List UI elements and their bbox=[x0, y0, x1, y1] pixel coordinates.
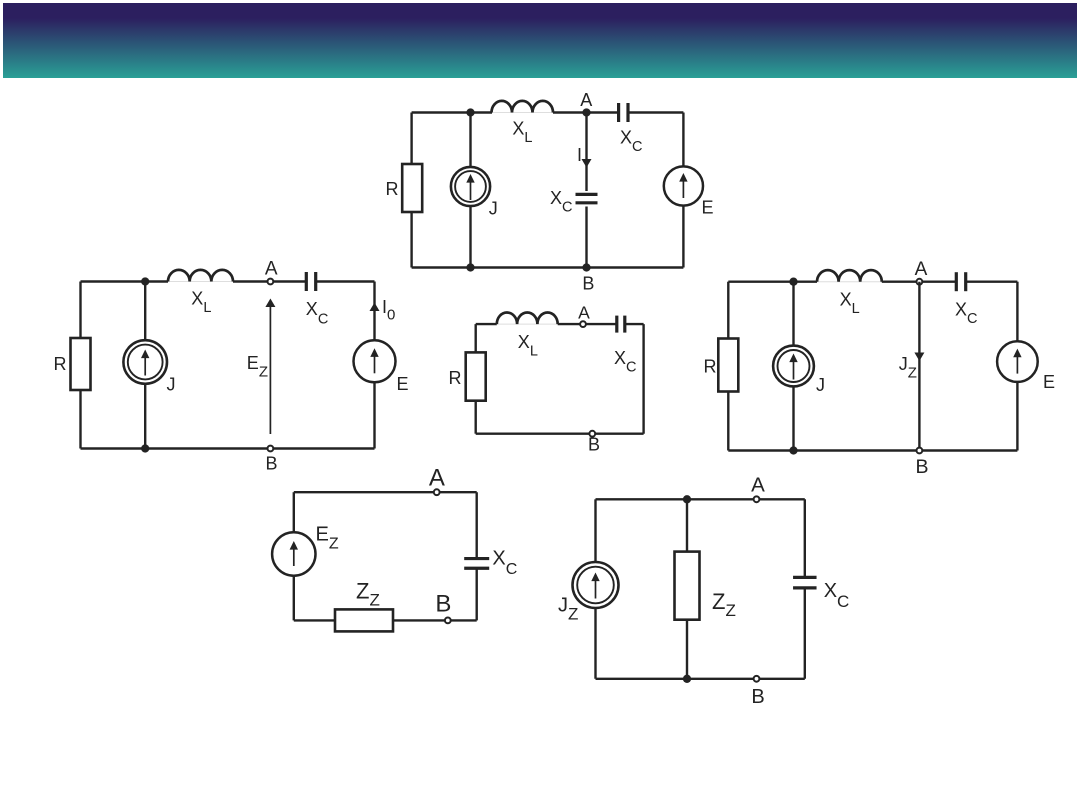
wire: circuit-5 left upper bbox=[293, 492, 295, 532]
voltage arrow E_Z (circuit 2) bbox=[269, 306, 271, 434]
inductor X_L (circuit 2) bbox=[168, 270, 233, 282]
junction: circuit-6 bottom bbox=[683, 675, 691, 683]
wire: circuit-6 Z branch lower bbox=[686, 620, 688, 679]
current source J (circuit 2) bbox=[123, 340, 167, 384]
svg-text:R: R bbox=[704, 357, 717, 377]
junction: circuit-2 bottom bbox=[141, 444, 149, 452]
wire: circuit-6 left lower bbox=[594, 608, 596, 679]
wire: circuit-1 right lower bbox=[682, 206, 684, 268]
wire: circuit-4 left lower bbox=[727, 392, 729, 451]
svg-text:B: B bbox=[915, 456, 928, 478]
voltage source E (circuit 4) bbox=[997, 341, 1038, 382]
current arrow I_0 (circuit 2) bbox=[370, 303, 380, 312]
ghost line under inductor (circuit 4) bbox=[817, 281, 882, 283]
current arrow J_Z (circuit 4) bbox=[914, 353, 924, 362]
capacitor X_C middle (circuit 1) bbox=[576, 193, 598, 196]
node A (circuit 5) bbox=[434, 489, 440, 495]
ghost line under inductor (circuit 3) bbox=[497, 323, 558, 325]
wire: circuit-4 right upper bbox=[1016, 282, 1018, 342]
wire: circuit-6 left upper bbox=[594, 499, 596, 562]
wire: circuit-1 middle branch upper bbox=[585, 113, 587, 192]
header gradient band bbox=[3, 3, 1077, 78]
node A (circuit 6) bbox=[754, 496, 760, 502]
wire: circuit-3 bottom rail bbox=[476, 433, 644, 435]
capacitor X_C (circuit 6) bbox=[793, 576, 817, 579]
svg-text:JZ: JZ bbox=[899, 354, 917, 382]
voltage source E_Z (circuit 5) bbox=[272, 532, 315, 575]
svg-text:XC: XC bbox=[492, 548, 517, 579]
svg-text:B: B bbox=[265, 454, 277, 474]
wire: circuit-1 middle branch lower bbox=[585, 207, 587, 268]
capacitor X_C (circuit 2) bbox=[305, 272, 308, 291]
wire: circuit-4 top rail right bbox=[966, 281, 1018, 283]
wire: circuit-1 bottom rail bbox=[412, 266, 684, 268]
wire: circuit-3 left lower bbox=[475, 401, 477, 434]
wire: circuit-4 J branch upper bbox=[792, 282, 794, 346]
capacitor X_C top (circuit 1) bbox=[617, 103, 620, 122]
svg-text:I: I bbox=[577, 145, 582, 165]
wire: circuit-6 bottom rail bbox=[596, 678, 805, 680]
wire: circuit-1 J branch lower bbox=[469, 206, 471, 268]
resistor R (circuit 2) bbox=[71, 338, 91, 390]
junction: circuit-1 top bbox=[466, 108, 474, 116]
wire: circuit-2 top rail right bbox=[316, 280, 375, 282]
svg-text:XC: XC bbox=[306, 299, 329, 328]
wire: circuit-4 left upper bbox=[727, 282, 729, 339]
junction: circuit-6 top bbox=[683, 495, 691, 503]
junction: circuit-1 bottom bbox=[466, 263, 474, 271]
ghost line under inductor (circuit 2) bbox=[168, 281, 233, 283]
svg-text:I0: I0 bbox=[382, 297, 395, 324]
svg-text:A: A bbox=[751, 474, 765, 497]
svg-text:EZ: EZ bbox=[247, 353, 268, 381]
svg-text:A: A bbox=[580, 90, 592, 110]
current source J (circuit 1) bbox=[451, 167, 490, 206]
resistor R (circuit 1) bbox=[402, 164, 422, 212]
wire: circuit-2 bottom rail bbox=[81, 447, 375, 449]
svg-text:R: R bbox=[386, 179, 399, 199]
node B (circuit 4) bbox=[917, 448, 923, 454]
inductor X_L (circuit 1) bbox=[492, 101, 554, 113]
wire: circuit-4 right lower bbox=[1016, 382, 1018, 451]
svg-text:XL: XL bbox=[512, 118, 532, 146]
svg-text:B: B bbox=[582, 273, 594, 293]
wire: circuit-5 right lower bbox=[476, 568, 478, 620]
svg-text:XL: XL bbox=[840, 289, 860, 317]
svg-text:ZZ: ZZ bbox=[712, 589, 736, 620]
node A (circuit 1) bbox=[582, 108, 590, 116]
wire: circuit-2 right upper bbox=[373, 282, 375, 341]
node B (circuit 3) bbox=[589, 431, 595, 437]
wire: circuit-4 middle branch J_Z bbox=[918, 282, 920, 451]
svg-text:R: R bbox=[449, 368, 462, 388]
wire: circuit-6 right upper bbox=[804, 499, 806, 577]
svg-text:XC: XC bbox=[620, 128, 643, 156]
wire: circuit-2 left upper bbox=[79, 282, 81, 339]
wire: circuit-1 top rail left bbox=[412, 111, 492, 113]
svg-text:B: B bbox=[435, 590, 451, 617]
wire: circuit-3 left upper bbox=[475, 324, 477, 352]
capacitor X_C (circuit 3) bbox=[615, 316, 618, 333]
wire: circuit-4 bottom rail bbox=[728, 449, 1017, 451]
svg-text:E: E bbox=[1043, 372, 1055, 392]
wire: circuit-1 J branch upper bbox=[469, 113, 471, 168]
inductor X_L (circuit 4) bbox=[817, 270, 882, 282]
resistor R (circuit 3) bbox=[466, 352, 486, 400]
wire: circuit-3 top rail left bbox=[476, 323, 497, 325]
svg-text:J: J bbox=[167, 375, 176, 395]
wire: circuit-5 bottom left segment bbox=[294, 619, 335, 621]
svg-text:A: A bbox=[429, 465, 445, 492]
wire: circuit-2 J branch lower bbox=[144, 383, 146, 449]
node A (circuit 2) bbox=[268, 279, 274, 285]
wire: circuit-5 bottom right segment bbox=[393, 619, 477, 621]
junction: circuit-4 top bbox=[789, 278, 797, 286]
wire: circuit-1 left upper bbox=[410, 113, 412, 165]
svg-text:EZ: EZ bbox=[316, 524, 339, 553]
svg-text:E: E bbox=[397, 374, 409, 394]
wire: circuit-1 top rail middle bbox=[553, 111, 619, 113]
svg-text:R: R bbox=[54, 354, 67, 374]
svg-text:XL: XL bbox=[191, 288, 211, 316]
wire: circuit-6 top rail bbox=[596, 498, 805, 500]
capacitor X_C (circuit 5) bbox=[464, 557, 489, 560]
svg-text:JZ: JZ bbox=[558, 595, 578, 624]
wire: circuit-5 right upper bbox=[476, 492, 478, 558]
wire: circuit-3 top rail right bbox=[625, 323, 644, 325]
wire: circuit-4 J branch lower bbox=[792, 386, 794, 450]
wire: circuit-4 top rail middle bbox=[882, 281, 957, 283]
wire: circuit-2 right lower bbox=[373, 382, 375, 448]
resistor R (circuit 4) bbox=[718, 339, 738, 392]
wire: circuit-4 top rail left bbox=[728, 281, 817, 283]
svg-text:J: J bbox=[816, 375, 825, 395]
node A (circuit 4) bbox=[917, 279, 923, 285]
current source J_Z (circuit 6) bbox=[573, 562, 619, 608]
wire: circuit-5 left lower bbox=[293, 576, 295, 621]
svg-text:B: B bbox=[588, 435, 600, 455]
wire: circuit-2 top rail left bbox=[81, 280, 169, 282]
wire: circuit-1 left lower bbox=[410, 212, 412, 268]
wire: circuit-6 right lower bbox=[804, 588, 806, 679]
wire: circuit-3 top rail middle bbox=[558, 323, 617, 325]
svg-text:XC: XC bbox=[824, 580, 850, 611]
svg-text:A: A bbox=[915, 259, 928, 280]
node B (circuit 1) bbox=[582, 263, 590, 271]
ghost line under inductor (circuit 1) bbox=[492, 112, 553, 114]
wire: circuit-2 left lower bbox=[79, 390, 81, 449]
current source J (circuit 4) bbox=[773, 346, 814, 387]
svg-text:E: E bbox=[702, 198, 714, 218]
svg-text:XC: XC bbox=[614, 348, 637, 376]
svg-text:XC: XC bbox=[550, 188, 573, 216]
wire: circuit-1 top rail right bbox=[628, 111, 683, 113]
wire: circuit-3 right side bbox=[642, 324, 644, 434]
svg-text:J: J bbox=[489, 199, 498, 219]
svg-text:A: A bbox=[578, 303, 590, 323]
wire: circuit-2 J branch upper bbox=[144, 282, 146, 342]
node B (circuit 5) bbox=[445, 618, 451, 624]
svg-text:XC: XC bbox=[955, 300, 978, 328]
impedance Z_Z (circuit 6) bbox=[675, 552, 700, 620]
impedance Z_Z (circuit 5) bbox=[335, 609, 393, 631]
node A (circuit 3) bbox=[580, 321, 586, 327]
wire: circuit-2 top rail middle bbox=[233, 280, 306, 282]
junction: circuit-4 bottom bbox=[789, 446, 797, 454]
wire: circuit-6 Z branch upper bbox=[686, 499, 688, 551]
inductor X_L (circuit 3) bbox=[497, 312, 558, 324]
svg-text:ZZ: ZZ bbox=[356, 579, 380, 610]
voltage source E (circuit 1) bbox=[664, 166, 703, 205]
junction: circuit-2 top bbox=[141, 277, 149, 285]
node B (circuit 2) bbox=[268, 446, 274, 452]
capacitor X_C (circuit 4) bbox=[955, 272, 958, 291]
wire: circuit-1 right upper bbox=[682, 113, 684, 167]
svg-text:XL: XL bbox=[518, 332, 538, 360]
svg-text:B: B bbox=[751, 686, 764, 708]
current arrow I (circuit 1) bbox=[582, 159, 592, 168]
wire: circuit-5 top rail bbox=[294, 491, 477, 493]
node B (circuit 6) bbox=[754, 676, 760, 682]
svg-text:A: A bbox=[265, 259, 278, 280]
voltage source E (circuit 2) bbox=[354, 340, 396, 382]
